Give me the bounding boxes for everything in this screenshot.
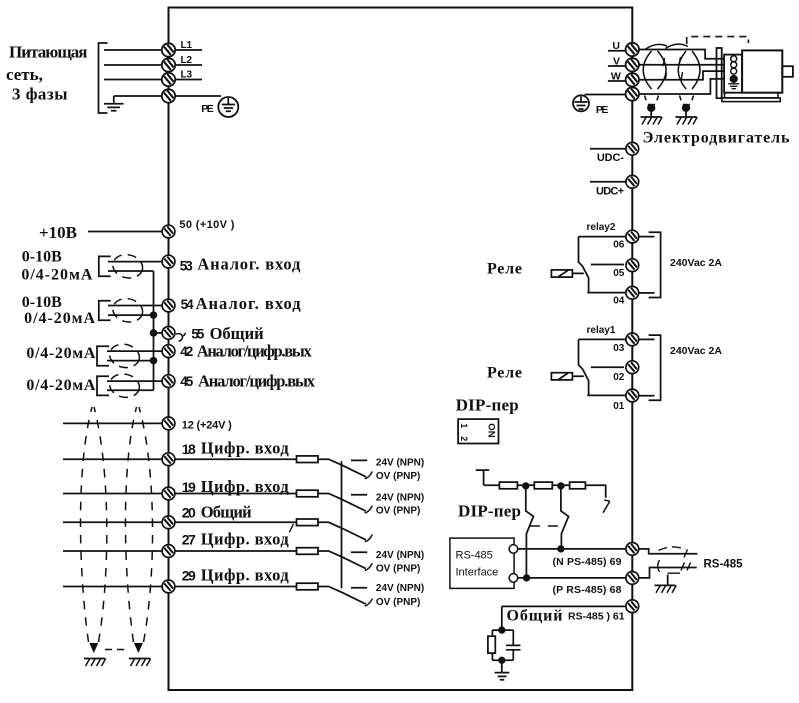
cable tick dashes xyxy=(663,57,682,81)
svg-text:OV (PNP): OV (PNP) xyxy=(376,563,420,574)
wire 61 xyxy=(502,605,627,607)
relay1 stub 03 right xyxy=(639,338,654,340)
svg-text:Аналог. вход: Аналог. вход xyxy=(196,294,302,313)
svg-text:RS-485: RS-485 xyxy=(456,550,493,562)
label stub W xyxy=(608,80,626,82)
svg-text:0/4-20мА: 0/4-20мА xyxy=(26,345,95,362)
terminal 29 xyxy=(162,580,175,593)
svg-text:Общий: Общий xyxy=(507,608,563,625)
wire +10V to terminal 50 xyxy=(88,231,162,233)
motor ground left xyxy=(641,117,663,125)
terminal PE right xyxy=(626,87,639,100)
svg-text:3 фазы: 3 фазы xyxy=(12,85,68,104)
shield ellipse pair 45 xyxy=(107,371,141,400)
svg-text:05: 05 xyxy=(613,268,625,279)
svg-text:240Vac 2A: 240Vac 2A xyxy=(670,345,722,357)
shield ellipse pair 53 xyxy=(111,252,145,281)
RS-485 shield arc xyxy=(659,547,687,551)
resistor 20 xyxy=(297,519,319,526)
row 19 24V contact xyxy=(351,494,367,496)
terminal 04 xyxy=(626,286,639,299)
motor terminal circle 1 xyxy=(731,56,737,62)
svg-text:DIP-пер: DIP-пер xyxy=(458,502,521,521)
terminal U xyxy=(626,43,639,56)
resistor 27 xyxy=(297,548,319,555)
terminal 27 xyxy=(162,545,175,558)
UDC+ stub xyxy=(590,181,626,183)
termination resistor 1 xyxy=(499,482,517,489)
relay2 NO wire 06 xyxy=(579,236,627,238)
drive enclosure box xyxy=(169,8,633,691)
shield drain funnel left xyxy=(645,96,659,108)
wire 42 signal xyxy=(107,350,162,352)
svg-text:Цифр. вход: Цифр. вход xyxy=(201,530,290,549)
wire L1 xyxy=(104,49,162,51)
svg-text:0-10В: 0-10В xyxy=(22,248,62,265)
terminal UDC- xyxy=(626,142,639,155)
shield drain funnel right xyxy=(680,96,694,108)
relay2 coil xyxy=(551,270,572,277)
terminal 06 xyxy=(626,230,639,243)
termination open switch xyxy=(603,500,610,513)
terminal 69 xyxy=(626,543,639,556)
cable shield ellipse 1 xyxy=(643,51,666,89)
junction dot termination 1 xyxy=(523,483,529,489)
analog pair 45 bracket xyxy=(97,376,109,395)
svg-text:OV (PNP): OV (PNP) xyxy=(376,506,420,517)
motor base xyxy=(725,93,779,98)
svg-text:+10В: +10В xyxy=(39,223,77,242)
ground input earth xyxy=(104,96,124,111)
label stub L1 xyxy=(175,49,202,51)
wire L2 xyxy=(104,64,162,66)
terminal PE left xyxy=(162,89,175,102)
DIP switch box xyxy=(458,419,498,443)
relay1 coil xyxy=(551,373,572,380)
junction dot termination 2 xyxy=(558,483,564,489)
RS-485 shield ground xyxy=(655,585,677,593)
terminal V xyxy=(626,58,639,71)
terminal W xyxy=(626,73,639,86)
squiggle at 55 xyxy=(176,333,186,341)
svg-text:45: 45 xyxy=(180,374,193,389)
svg-text:240Vac 2A: 240Vac 2A xyxy=(670,257,722,269)
svg-text:UDC-: UDC- xyxy=(597,152,624,164)
wire 20 xyxy=(63,521,297,523)
motor terminal circle 3 xyxy=(731,68,737,74)
wire 54 return xyxy=(108,314,154,316)
svg-text:0/4-20мА: 0/4-20мА xyxy=(26,377,95,394)
svg-text:(P RS-485) 68: (P RS-485) 68 xyxy=(553,584,622,596)
terminal L2 xyxy=(162,58,175,71)
svg-text:Общий: Общий xyxy=(201,503,252,522)
svg-text:Реле: Реле xyxy=(487,261,522,278)
DIP switch 2 pole xyxy=(561,486,569,549)
RC top rail xyxy=(492,629,513,631)
analog pair 42 bracket xyxy=(97,346,109,366)
svg-text:L3: L3 xyxy=(181,70,193,81)
svg-text:24V (NPN): 24V (NPN) xyxy=(376,550,424,561)
svg-text:0/4-20мА: 0/4-20мА xyxy=(21,267,92,284)
svg-text:20: 20 xyxy=(182,505,196,521)
svg-text:relay1: relay1 xyxy=(587,325,616,336)
svg-text:DIP-пер: DIP-пер xyxy=(456,396,519,415)
svg-text:2: 2 xyxy=(459,436,469,441)
svg-text:Аналог/цифр.вых: Аналог/цифр.вых xyxy=(197,342,313,361)
pin circle N xyxy=(509,545,518,554)
svg-text:18: 18 xyxy=(182,441,196,457)
dashed link between arrows xyxy=(105,649,127,651)
svg-text:12 (+24V ): 12 (+24V ) xyxy=(182,419,232,431)
label stub L2 xyxy=(175,64,202,66)
supply bracket xyxy=(99,43,108,113)
svg-text:29: 29 xyxy=(182,568,196,584)
PE earth circle left xyxy=(218,97,238,117)
svg-text:(N PS-485) 69: (N PS-485) 69 xyxy=(553,556,622,568)
svg-text:24V (NPN): 24V (NPN) xyxy=(376,492,424,503)
svg-text:0-10В: 0-10В xyxy=(22,294,62,311)
svg-text:04: 04 xyxy=(613,296,625,307)
svg-text:PE: PE xyxy=(201,103,214,115)
row 19 hook xyxy=(365,506,373,513)
relay1 NC wire 02 xyxy=(591,366,624,368)
UDC- stub xyxy=(590,148,626,150)
shield ellipse pair 42 xyxy=(107,342,141,371)
svg-text:54: 54 xyxy=(181,297,194,312)
terminal UDC+ xyxy=(626,175,639,188)
shield drain junction dot right xyxy=(683,105,690,112)
resistor 18 xyxy=(297,456,319,463)
row 29 hook xyxy=(365,599,373,606)
wire 55 common xyxy=(154,332,163,334)
terminal 50 xyxy=(162,225,175,238)
wire 61 drop xyxy=(501,606,503,630)
svg-text:Цифр. вход: Цифр. вход xyxy=(201,565,290,584)
terminal 19 xyxy=(162,487,175,500)
control cable loop 1 right xyxy=(94,407,107,642)
RS-485 shield dash xyxy=(668,572,681,574)
svg-text:RS-485: RS-485 xyxy=(704,558,744,570)
terminal 45 xyxy=(162,375,175,388)
terminal 18 xyxy=(162,453,175,466)
relay2 arm xyxy=(579,237,589,293)
svg-text:L1: L1 xyxy=(181,40,193,51)
control cable loop 1 left xyxy=(81,407,93,642)
wire 29 xyxy=(63,586,297,588)
RS-485 slashes xyxy=(681,550,691,571)
analog pair 53 bracket xyxy=(99,256,111,276)
svg-text:0/4-20мА: 0/4-20мА xyxy=(24,310,95,327)
terminal 01 xyxy=(626,389,639,402)
junction dot 68 xyxy=(524,575,530,581)
row 20 tick xyxy=(289,524,293,533)
terminal L3 xyxy=(162,73,175,86)
svg-text:Interface: Interface xyxy=(456,567,499,579)
svg-text:Цифр. вход: Цифр. вход xyxy=(201,439,290,458)
drain stub left xyxy=(650,108,652,117)
motor ground right xyxy=(676,117,698,125)
RC bottom rail xyxy=(492,659,513,661)
row 20 link xyxy=(318,522,366,540)
row 18 24V contact xyxy=(351,459,367,461)
RS-485 interface box xyxy=(450,538,514,588)
svg-text:53: 53 xyxy=(180,258,193,273)
svg-text:RS-485 ) 61: RS-485 ) 61 xyxy=(568,611,625,623)
terminal 12 xyxy=(162,417,175,430)
svg-text:Аналог. вход: Аналог. вход xyxy=(197,255,301,274)
junction dot 55 xyxy=(151,330,157,336)
shield drain junction dot left xyxy=(648,105,655,112)
terminal 61 xyxy=(626,600,639,613)
resistor 19 xyxy=(297,490,319,497)
terminal 68 xyxy=(626,572,639,585)
motor body xyxy=(742,50,782,92)
RS-485 out wire lower xyxy=(639,568,697,578)
terminal L1 xyxy=(162,43,175,56)
junction dot RC top xyxy=(499,627,505,633)
svg-text:03: 03 xyxy=(613,343,625,354)
terminal 03 xyxy=(626,333,639,346)
motor terminal circle 2 xyxy=(731,62,737,68)
label stub U xyxy=(608,50,626,52)
svg-text:ON: ON xyxy=(486,423,497,437)
analog pair 54 bracket xyxy=(99,301,111,321)
relay2 common wire 04 xyxy=(587,292,626,294)
row 18 hook xyxy=(365,471,373,478)
svg-text:27: 27 xyxy=(182,532,196,548)
relay1 NO wire 03 xyxy=(579,338,627,340)
terminal 55 xyxy=(162,327,175,340)
RS-485 shield stub xyxy=(667,575,669,586)
wire L3 xyxy=(104,79,162,81)
svg-text:42: 42 xyxy=(180,344,193,359)
wire 69 xyxy=(518,548,626,550)
relay1 bracket xyxy=(649,335,661,400)
svg-text:24V (NPN): 24V (NPN) xyxy=(376,583,424,594)
relay2 NC wire 05 xyxy=(591,264,624,266)
svg-text:Аналог/цифр.вых: Аналог/цифр.вых xyxy=(198,372,316,391)
label stub V xyxy=(608,65,626,67)
svg-text:55: 55 xyxy=(191,327,204,342)
svg-text:сеть,: сеть, xyxy=(6,65,43,84)
cable ground right xyxy=(129,659,151,667)
wire 19 xyxy=(63,493,297,495)
svg-text:50 (+10V ): 50 (+10V ) xyxy=(179,219,234,231)
svg-text:relay2: relay2 xyxy=(587,222,616,233)
terminal 53 xyxy=(162,255,175,268)
cable over-arc 2 xyxy=(666,44,689,48)
wire 45 signal xyxy=(107,380,162,382)
motor cable wire PE xyxy=(639,79,729,94)
wire PE to earth circle xyxy=(175,95,221,97)
motor flange bar xyxy=(717,48,722,98)
relay2 bracket xyxy=(649,232,661,297)
relay2 stub 06 right xyxy=(639,236,654,238)
svg-text:01: 01 xyxy=(613,401,625,412)
relay2 stub 04 right xyxy=(639,292,654,294)
cable arrow left xyxy=(89,643,98,653)
common bus vertical wire xyxy=(153,271,155,390)
gang link dashes xyxy=(530,525,558,527)
motor PE dot xyxy=(731,76,737,82)
dashed shield boundary box xyxy=(687,37,749,44)
svg-text:OV (PNP): OV (PNP) xyxy=(376,597,420,608)
wire 54 signal xyxy=(108,305,162,307)
terminal 05 xyxy=(626,259,639,272)
row 27 link xyxy=(318,551,366,569)
junction dot 42 xyxy=(151,358,157,364)
svg-text:OV (PNP): OV (PNP) xyxy=(376,471,420,482)
cable ground left xyxy=(84,659,106,667)
motor terminal box xyxy=(724,55,742,93)
RC capacitor branch xyxy=(506,630,521,660)
junction dot 69 xyxy=(558,546,564,552)
row 20 hook xyxy=(365,535,373,542)
RC resistor branch xyxy=(491,630,493,660)
DIP switch 1 pole xyxy=(526,486,534,578)
svg-text:L2: L2 xyxy=(181,55,193,66)
junction dot RC bottom xyxy=(499,658,505,664)
svg-text:V: V xyxy=(613,55,620,67)
pin circle P xyxy=(509,574,518,583)
cable over-arc 1 xyxy=(645,44,667,49)
motor shaft xyxy=(782,66,793,77)
wire 53 return xyxy=(108,270,154,272)
PE earth circle right xyxy=(573,95,589,111)
terminal 02 xyxy=(626,361,639,374)
svg-text:06: 06 xyxy=(613,240,625,251)
label stub L3 xyxy=(175,79,202,81)
motor cable wire W xyxy=(639,71,730,80)
row 19 link xyxy=(318,494,366,512)
RC earth xyxy=(495,660,510,680)
cable arrow right xyxy=(134,643,143,653)
svg-text:PE: PE xyxy=(596,104,609,116)
wire 45 return xyxy=(107,389,154,391)
wire 53 signal xyxy=(108,261,162,263)
motor cable wire U xyxy=(639,50,730,59)
wire 27 xyxy=(63,550,297,552)
terminal 20 xyxy=(162,516,175,529)
wire 68 xyxy=(518,577,626,579)
RS-485 out wire upper xyxy=(639,549,697,554)
svg-text:02: 02 xyxy=(613,372,625,383)
drain stub right xyxy=(685,108,687,117)
row 29 24V contact xyxy=(351,587,367,589)
digital common vertical line xyxy=(341,461,343,588)
wire 12 xyxy=(63,422,162,424)
termination pull-up stub xyxy=(476,470,490,485)
control cable loop 2 right xyxy=(139,407,153,642)
termination resistor 3 xyxy=(570,482,586,489)
relay1 common wire 01 xyxy=(587,394,626,396)
svg-text:U: U xyxy=(612,40,620,52)
terminal 54 xyxy=(162,299,175,312)
shield ellipse pair 54 xyxy=(111,296,145,325)
RS-485 pair arc xyxy=(658,560,660,572)
svg-text:Общий: Общий xyxy=(210,324,264,343)
svg-text:1: 1 xyxy=(459,423,469,428)
terminal 42 xyxy=(162,345,175,358)
termination resistor 2 xyxy=(534,482,552,489)
svg-text:Электродвигатель: Электродвигатель xyxy=(643,129,791,146)
row 29 link xyxy=(318,587,366,605)
svg-text:W: W xyxy=(611,70,621,82)
control cable loop 2 left xyxy=(125,407,136,642)
svg-text:UDC+: UDC+ xyxy=(596,186,624,198)
svg-text:Реле: Реле xyxy=(487,365,522,382)
svg-text:24V (NPN): 24V (NPN) xyxy=(376,457,424,468)
motor cable wire V xyxy=(639,64,730,66)
row 27 24V contact xyxy=(351,551,367,553)
relay1 stub 01 right xyxy=(639,395,654,397)
wire 42 return xyxy=(107,360,154,362)
relay1 arm xyxy=(579,339,589,395)
row 18 link xyxy=(318,459,366,477)
wire PE left xyxy=(114,95,162,97)
termination resistor chain wire xyxy=(484,485,606,498)
motor internal earth xyxy=(728,82,739,89)
cable shield ellipse 2 xyxy=(678,51,700,89)
svg-text:19: 19 xyxy=(182,479,196,495)
svg-text:Цифр. вход: Цифр. вход xyxy=(201,477,290,496)
resistor 29 xyxy=(297,583,319,590)
junction dot 54 xyxy=(151,312,157,318)
row 27 hook xyxy=(365,563,373,570)
wire 18 xyxy=(63,458,297,460)
svg-text:Питающая: Питающая xyxy=(9,43,88,62)
